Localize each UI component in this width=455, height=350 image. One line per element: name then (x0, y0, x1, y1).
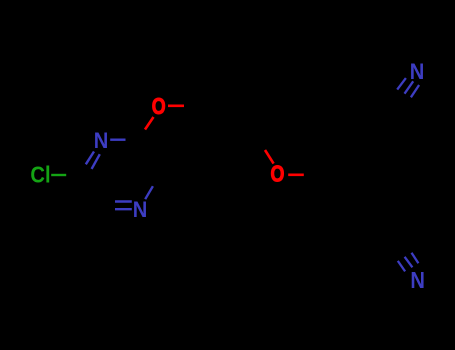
bond O1-C2 (red half) (145, 117, 154, 130)
bottom nitrile triple bond line 2 (blue half) (405, 257, 413, 268)
svg-text:O: O (152, 95, 166, 119)
top nitrile triple bond line 3 (blue half) (411, 85, 419, 97)
svg-text:N: N (133, 197, 148, 222)
bond N4=C5 double inner line (blue half) (115, 200, 132, 202)
top nitrile triple bond line 2 (blue half) (405, 81, 414, 93)
svg-text:N: N (410, 59, 425, 84)
bottom nitrile triple bond line 3 (blue half) (412, 253, 419, 264)
bond N4=C5 double main line (blue half) (115, 208, 132, 210)
bottom nitrile triple bond line 1 (blue half) (398, 261, 405, 272)
svg-text:N: N (94, 128, 109, 153)
top nitrile triple bond line 1 (blue half) (397, 78, 406, 90)
svg-text:Cl: Cl (30, 162, 50, 187)
bond O2-CH2 (red half) (265, 150, 274, 164)
bond O1-CH2 (red half) (168, 105, 184, 108)
bond N4-C3 single (blue half) (145, 186, 153, 199)
bond N1=C6 double main line (blue half) (86, 152, 94, 165)
bond Cl-C6 (green half) (51, 174, 66, 176)
svg-text:N: N (410, 267, 425, 294)
svg-text:O: O (271, 163, 285, 187)
bond O2-C1' aryl (red half) (288, 174, 304, 177)
bond N1-C2 single (blue half) (110, 138, 125, 140)
bond N1=C6 double inner line (blue half) (92, 154, 100, 169)
